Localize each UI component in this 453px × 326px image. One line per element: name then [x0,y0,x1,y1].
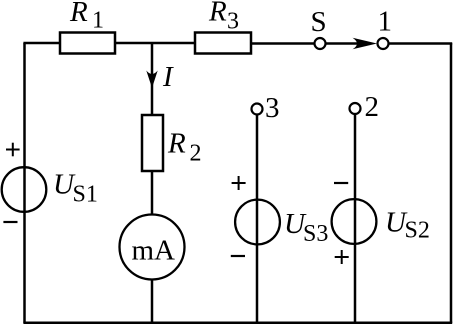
wire left vertical [23,43,26,323]
svg-text:R: R [69,0,88,28]
svg-text:S3: S3 [303,221,328,247]
plus sign of US1 [6,143,20,157]
svg-text:I: I [162,61,174,93]
terminal circle 3 [252,104,263,115]
minus sign of US1 [3,221,17,223]
svg-text:R: R [208,0,227,28]
wire R2 to mA meter [151,171,154,215]
svg-text:3: 3 [227,9,239,35]
wire branch node 3 vertical [256,115,259,323]
minus sign of US3 [231,255,245,257]
wire R1 to R3 [115,42,195,45]
resistor R2 body [142,115,163,171]
wire branch node 2 vertical [354,115,357,323]
wire right vertical [450,43,453,323]
wire top-left to R1 [23,42,60,45]
wire bottom rail [23,322,452,325]
switch terminal circle 1 [378,38,389,49]
switch arrow head [353,38,378,50]
switch arrow S to 1 [326,42,365,45]
source US2 circle [332,199,377,244]
wire R3 to switch S [251,42,315,45]
svg-text:mA: mA [132,235,176,267]
current arrow I head [146,71,157,89]
svg-text:S1: S1 [73,182,98,208]
plus sign of US3 [232,176,246,190]
source US1 circle [2,167,47,212]
svg-text:1: 1 [378,6,393,38]
plus sign of US2 [335,250,349,264]
wire switch terminal 1 to top-right corner [389,42,453,45]
svg-text:R: R [167,128,186,160]
svg-text:1: 1 [92,8,104,34]
minus sign of US2 [334,182,348,184]
switch S terminal circle [315,38,326,49]
svg-text:3: 3 [265,92,280,124]
svg-text:S2: S2 [405,218,430,244]
resistor R3 body [195,33,251,54]
svg-text:S: S [311,6,327,38]
wire middle branch: junction to R2 [151,43,154,115]
svg-text:2: 2 [365,91,380,123]
ammeter mA circle [120,215,185,280]
source US3 circle [235,200,280,245]
svg-text:2: 2 [190,141,202,167]
resistor R1 body [60,33,115,54]
wire mA meter to bottom rail [151,280,154,324]
terminal circle 2 [350,103,361,114]
